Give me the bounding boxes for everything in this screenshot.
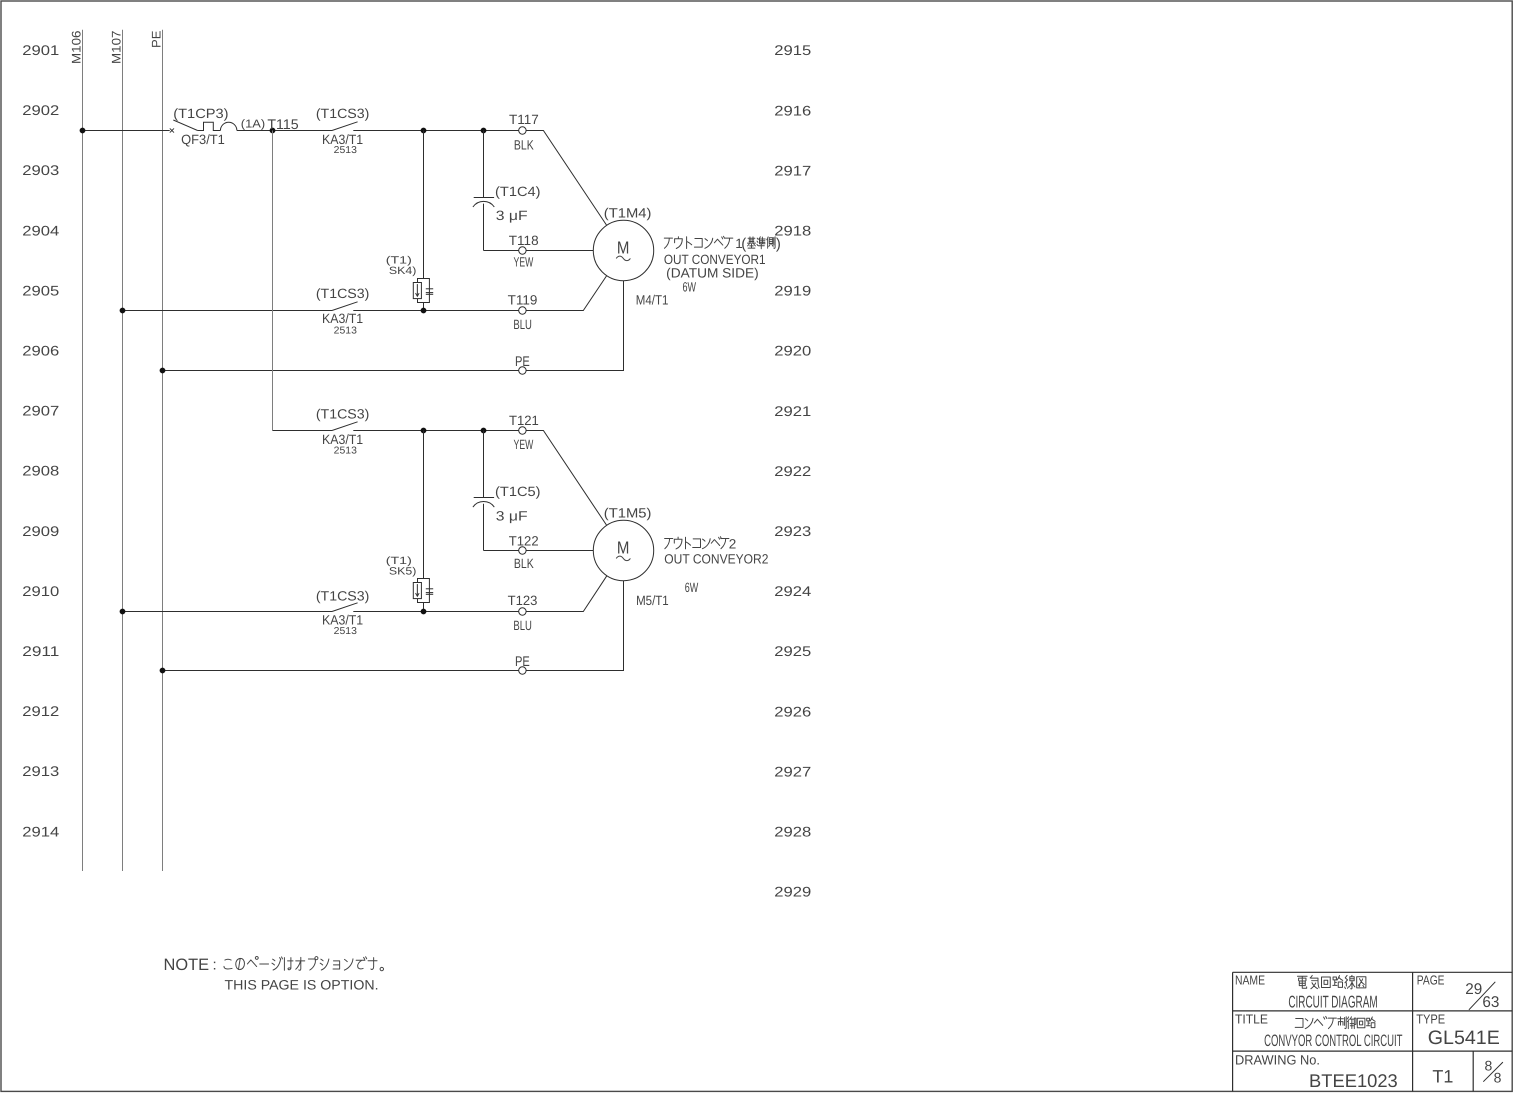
- svg-text:2901: 2901: [22, 42, 59, 58]
- svg-text:OUT CONVEYOR1: OUT CONVEYOR1: [664, 252, 766, 267]
- svg-text:6W: 6W: [685, 580, 699, 595]
- svg-text:T119: T119: [508, 293, 538, 308]
- svg-text:2925: 2925: [774, 643, 811, 659]
- svg-text:NAME: NAME: [1235, 972, 1265, 987]
- svg-text:T123: T123: [508, 593, 538, 608]
- svg-text:BLU: BLU: [513, 317, 532, 332]
- svg-text:8: 8: [1494, 1070, 1502, 1086]
- svg-text:2513: 2513: [334, 446, 358, 457]
- svg-text:2929: 2929: [774, 884, 811, 900]
- svg-text::: :: [213, 957, 218, 974]
- svg-text:QF3/T1: QF3/T1: [181, 132, 225, 147]
- svg-text:3 μF: 3 μF: [496, 508, 528, 523]
- svg-text:2909: 2909: [22, 523, 59, 539]
- svg-text:(1A): (1A): [241, 119, 266, 131]
- svg-text:2911: 2911: [22, 643, 59, 659]
- svg-text:2920: 2920: [774, 343, 811, 359]
- svg-text:2916: 2916: [774, 102, 811, 118]
- svg-text:KA3/T1: KA3/T1: [322, 311, 363, 326]
- svg-text:2923: 2923: [774, 523, 811, 539]
- svg-text:PE: PE: [515, 653, 530, 669]
- svg-text:29: 29: [1465, 981, 1482, 998]
- svg-text:2906: 2906: [22, 343, 59, 359]
- svg-text:M4/T1: M4/T1: [636, 293, 669, 308]
- svg-text:(T1C5): (T1C5): [495, 484, 541, 499]
- svg-text:BLU: BLU: [513, 618, 532, 633]
- svg-text:CIRCUIT DIAGRAM: CIRCUIT DIAGRAM: [1288, 993, 1377, 1012]
- svg-text:BLK: BLK: [514, 556, 534, 571]
- svg-text:(: (: [741, 236, 746, 253]
- svg-text:TYPE: TYPE: [1416, 1012, 1445, 1027]
- svg-text:2513: 2513: [334, 626, 358, 637]
- svg-text:(DATUM SIDE): (DATUM SIDE): [666, 266, 759, 281]
- svg-text:2922: 2922: [774, 463, 811, 479]
- svg-text:2903: 2903: [22, 162, 59, 178]
- svg-text:2: 2: [729, 537, 737, 552]
- svg-text:NOTE: NOTE: [164, 956, 210, 974]
- svg-text:2908: 2908: [22, 463, 59, 479]
- svg-text:BTEE1023: BTEE1023: [1309, 1070, 1398, 1091]
- svg-text:M106: M106: [69, 30, 83, 64]
- svg-text:8: 8: [1485, 1058, 1493, 1074]
- svg-text:2513: 2513: [334, 145, 358, 156]
- svg-text:M: M: [617, 537, 630, 557]
- svg-text:2921: 2921: [774, 403, 811, 419]
- svg-text:): ): [776, 236, 781, 253]
- svg-text:(T1CS3): (T1CS3): [316, 286, 370, 301]
- svg-text:2902: 2902: [22, 102, 59, 118]
- svg-text:(T1M4): (T1M4): [604, 205, 652, 220]
- svg-text:2926: 2926: [774, 703, 811, 719]
- svg-text:TITLE: TITLE: [1235, 1012, 1268, 1027]
- svg-text:PE: PE: [149, 31, 163, 49]
- svg-text:2919: 2919: [774, 283, 811, 299]
- svg-text:(T1CS3): (T1CS3): [316, 106, 370, 121]
- svg-text:GL541E: GL541E: [1428, 1027, 1500, 1049]
- svg-text:PE: PE: [515, 353, 530, 369]
- svg-text:6W: 6W: [682, 280, 696, 295]
- svg-text:2905: 2905: [22, 282, 59, 298]
- svg-text:YEW: YEW: [514, 255, 534, 270]
- svg-text:2917: 2917: [774, 162, 811, 178]
- svg-text:THIS PAGE IS OPTION.: THIS PAGE IS OPTION.: [225, 978, 379, 993]
- svg-text:T118: T118: [509, 233, 539, 248]
- svg-text:63: 63: [1482, 994, 1499, 1011]
- svg-text:(T1M5): (T1M5): [604, 506, 652, 521]
- svg-text:2915: 2915: [774, 42, 811, 58]
- svg-text:T122: T122: [509, 533, 539, 548]
- svg-text:2914: 2914: [22, 823, 59, 839]
- svg-text:(T1CP3): (T1CP3): [173, 106, 228, 121]
- svg-text:T117: T117: [509, 112, 539, 127]
- svg-text:BLK: BLK: [514, 137, 534, 152]
- svg-text:SK5): SK5): [389, 566, 417, 578]
- svg-text:(T1CS3): (T1CS3): [316, 589, 370, 604]
- svg-text:2513: 2513: [334, 325, 358, 336]
- svg-text:2924: 2924: [774, 583, 811, 599]
- svg-text:2928: 2928: [774, 824, 811, 840]
- svg-text:SK4): SK4): [389, 265, 417, 277]
- svg-text:YEW: YEW: [514, 437, 534, 452]
- svg-text:2910: 2910: [22, 583, 59, 599]
- svg-text:(T1C4): (T1C4): [495, 184, 541, 199]
- svg-text:2913: 2913: [22, 763, 59, 779]
- svg-text:CONVYOR CONTROL CIRCUIT: CONVYOR CONTROL CIRCUIT: [1264, 1032, 1402, 1050]
- svg-text:2904: 2904: [22, 222, 59, 238]
- svg-text:T115: T115: [267, 116, 299, 132]
- svg-text:(T1CS3): (T1CS3): [316, 406, 370, 421]
- svg-text:OUT CONVEYOR2: OUT CONVEYOR2: [664, 552, 768, 567]
- svg-text:2927: 2927: [774, 763, 811, 779]
- svg-text:PAGE: PAGE: [1417, 972, 1445, 987]
- svg-text:T121: T121: [509, 413, 539, 428]
- svg-text:M: M: [617, 237, 630, 257]
- svg-text:2907: 2907: [22, 403, 59, 419]
- svg-text:3 μF: 3 μF: [496, 208, 528, 223]
- svg-text:2912: 2912: [22, 703, 59, 719]
- svg-text:T1: T1: [1432, 1066, 1453, 1086]
- svg-text:M107: M107: [109, 30, 123, 64]
- svg-text:M5/T1: M5/T1: [636, 593, 669, 608]
- svg-text:DRAWING No.: DRAWING No.: [1235, 1052, 1320, 1067]
